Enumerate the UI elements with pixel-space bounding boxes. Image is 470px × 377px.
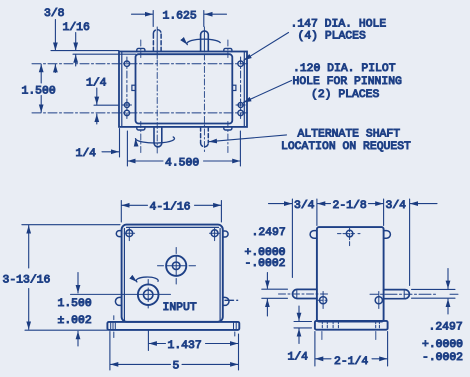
svg-text:.120 DIA. PILOT: .120 DIA. PILOT [293, 63, 396, 75]
side view: right shaft centerline [370, 293, 437, 295]
svg-text:1/16: 1/16 [63, 22, 91, 34]
svg-text:1.625: 1.625 [163, 10, 197, 22]
top view: left hole column centerline (vertical) [126, 57, 128, 119]
front view: flange slot left [111, 316, 116, 338]
side view: right boss [384, 231, 391, 239]
svg-text:.2497: .2497 [429, 322, 463, 334]
front view: housing body outline [122, 225, 223, 322]
svg-text:1/4: 1/4 [86, 78, 107, 90]
front view: inner wall lines [124, 227, 220, 321]
svg-text:.2497: .2497 [252, 227, 286, 239]
side view: left shaft centerline [279, 293, 331, 295]
top view: shaft 1 axis line [152, 11, 154, 27]
front view: mounting flange [107, 322, 239, 330]
front view: upper right boss [223, 231, 228, 237]
top view: mounting hole centerline (horizontal, lower) [32, 112, 248, 114]
top view: shaft 2 axis line [203, 11, 205, 27]
leader: alternate shaft note [209, 135, 287, 142]
leader: .147 dia hole note [244, 33, 289, 61]
svg-text:(2) PLACES: (2) PLACES [311, 89, 380, 101]
side view: pin hole left [318, 292, 332, 309]
top view: main body inner rounded outline [136, 54, 233, 123]
top view: left mid boss [132, 85, 136, 90]
top view: alternate shaft (bottom, dashed) [201, 127, 209, 147]
top view: rotation arrow around bottom shaft [136, 137, 175, 143]
svg-text:5: 5 [173, 361, 180, 373]
svg-text:4.500: 4.500 [165, 157, 199, 169]
top view: bottom edge boss right [224, 127, 232, 130]
leader: .120 pilot hole note [243, 81, 291, 103]
svg-text:-.0002: -.0002 [422, 352, 463, 364]
svg-text:2-1/4: 2-1/4 [334, 356, 368, 368]
extension line: body top [73, 53, 136, 55]
svg-text:2-1/8: 2-1/8 [333, 200, 367, 212]
front view: output shaft centerlines [158, 248, 196, 285]
top view: output shaft (top, hidden/dashed) [153, 30, 161, 52]
front view: input shaft vertical centerline [147, 280, 149, 309]
side view: top screw hole [338, 228, 363, 247]
front view: output shaft bore [166, 256, 186, 276]
dimension 3/4 left [269, 203, 293, 205]
extension line: pilot hole centerline [94, 104, 118, 106]
dimension 1/4 (hole spacing) [96, 88, 98, 124]
top view: input shaft (top, solid) [201, 31, 209, 51]
svg-text:(4) PLACES: (4) PLACES [298, 31, 367, 43]
svg-text:-.0002: -.0002 [245, 258, 286, 270]
dimension 1/4 (edge to hole column) [102, 151, 119, 153]
svg-text:INPUT: INPUT [163, 302, 197, 314]
top view: bottom input shaft (solid) [154, 127, 162, 147]
top view: .147 dia hole top-right [238, 61, 243, 66]
dimension 1.437 [148, 331, 238, 351]
svg-text:ALTERNATE SHAFT: ALTERNATE SHAFT [298, 129, 401, 141]
dimension 4-1/16 [121, 201, 221, 223]
svg-text:+.0000: +.0000 [422, 339, 463, 351]
front view: lower right boss [223, 297, 229, 305]
dimension 1.500 +/-.002 [71, 273, 171, 347]
svg-text:1/4: 1/4 [76, 148, 97, 160]
top view: boss centerline stubs [141, 40, 228, 153]
dimension 4.500 [127, 131, 240, 166]
svg-text:HOLE FOR PINNING: HOLE FOR PINNING [293, 76, 403, 88]
svg-text:1.500: 1.500 [22, 86, 56, 98]
dimension 1/16 [75, 33, 77, 67]
front view: cover screw hole top-left [124, 228, 134, 240]
dimension 1/4 flange thickness [294, 306, 312, 344]
dimension 1.500 (top view) [40, 64, 42, 112]
top view: .147 dia hole bottom-left [124, 110, 129, 115]
side view: left shaft [293, 289, 317, 298]
svg-text:1.437: 1.437 [168, 340, 202, 352]
extension line: end plate top [51, 50, 119, 52]
top view: .147 dia hole top-left [124, 61, 129, 66]
front view: cover screw hole top-right [210, 228, 220, 240]
front view: flange slot right [234, 322, 237, 336]
top view: .120 pilot hole right [236, 103, 245, 108]
top view: gearbox housing outer plate outline [119, 52, 247, 127]
top view: mounting hole centerline (horizontal, upper) [32, 63, 248, 65]
dimension .2497 right shaft [412, 269, 456, 315]
top view: top edge boss left [137, 48, 145, 51]
dimension 1.625 [132, 13, 227, 15]
dimension 3/8 [54, 20, 56, 73]
top view: right hole column centerline (vertical) [240, 57, 242, 119]
dimension 3/4 right [409, 199, 411, 286]
svg-text:1.500: 1.500 [58, 298, 92, 310]
top view: .120 pilot hole left [122, 103, 131, 108]
front view: input shaft bore [138, 284, 159, 305]
top view: rotation arrow around top input shaft [187, 39, 220, 44]
front view: lower left boss [115, 297, 121, 305]
svg-text:3/4: 3/4 [386, 200, 407, 212]
dimension 3-13/16 [22, 225, 120, 331]
top view: top edge boss right [224, 48, 232, 51]
top view: right mid boss [232, 85, 236, 90]
svg-text:±.002: ±.002 [58, 315, 92, 327]
dimension .2497 left shaft [262, 273, 288, 317]
side view: pin hole right [375, 292, 382, 309]
side view: right shaft [384, 290, 410, 299]
side view: left boss [310, 231, 317, 239]
extension line: box left edge down [119, 129, 121, 158]
side view: slot centerline stubs below flange [322, 332, 376, 340]
front view: upper left boss [116, 231, 121, 237]
centerline tail between views [225, 299, 238, 301]
svg-text:1/4: 1/4 [288, 352, 309, 364]
svg-text:.147 DIA. HOLE: .147 DIA. HOLE [291, 18, 387, 30]
top view: .147 dia hole bottom-right [238, 110, 243, 115]
svg-text:3-13/16: 3-13/16 [3, 275, 51, 287]
front view: input rotation arrow [136, 277, 158, 282]
svg-text:3/4: 3/4 [294, 200, 315, 212]
svg-text:3/8: 3/8 [44, 8, 65, 20]
top view: end-plate inner wall lines [122, 52, 245, 127]
svg-text:LOCATION ON REQUEST: LOCATION ON REQUEST [281, 141, 411, 153]
top view: bottom edge boss left [137, 127, 145, 130]
side view: mounting flange [315, 321, 388, 330]
dimension 2-1/4 [315, 332, 388, 367]
side view: flange slot hidden lines [322, 321, 379, 330]
svg-text:4-1/16: 4-1/16 [150, 201, 191, 213]
dimension 2-1/8 [317, 199, 384, 226]
dimension 5 [110, 332, 239, 371]
side view: housing body outline [317, 227, 384, 321]
